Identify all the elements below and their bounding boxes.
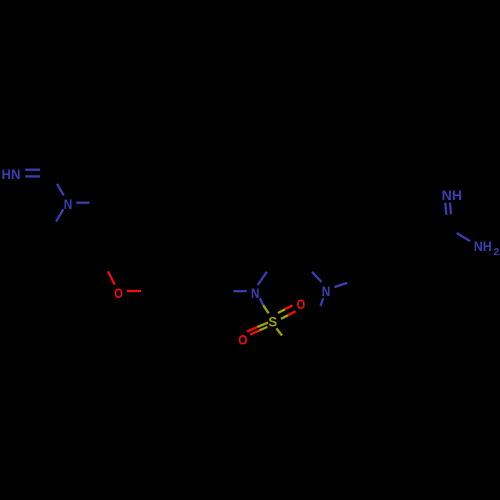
bond S=O lower-left line1 (O half) — [247, 327, 257, 332]
bond HN=C double (N half, upper line) — [25, 169, 40, 171]
bond S=O lower-left line2 (O half) — [250, 331, 259, 335]
bond C=NH amidine double line2 (N half) — [450, 203, 451, 215]
svg-text:N: N — [322, 283, 331, 299]
bond C-N1 piperidine (N half) — [57, 184, 64, 196]
svg-text:S: S — [268, 313, 277, 329]
bond O-phenyl (O half) — [127, 290, 141, 292]
bond S=O upper-right line2 (O half) — [288, 311, 296, 315]
bond CH2-O ether (O half) — [108, 271, 115, 284]
bond N-S (S half) — [263, 305, 269, 313]
svg-text:O: O — [238, 331, 247, 347]
svg-text:O: O — [114, 285, 123, 301]
bond N-CH2 sulfonamide (N half) — [258, 272, 267, 285]
bond S=O lower-left line2 (S half) — [259, 327, 267, 331]
bond N-C7a indoline (N half) — [334, 283, 347, 287]
svg-text:N: N — [251, 285, 260, 301]
bond C-NH2 amidine (N half) — [457, 233, 471, 241]
bond N-CH3 indoline (N half) — [321, 298, 324, 306]
svg-text:HN: HN — [2, 166, 21, 182]
bond N-S (N half) — [260, 298, 263, 305]
bond S=O upper-right line1 (S half) — [278, 309, 285, 313]
svg-text:O: O — [297, 296, 306, 312]
svg-text:NH: NH — [474, 238, 492, 254]
bond S=O lower-left line1 (S half) — [257, 323, 268, 327]
svg-text:2: 2 — [494, 247, 500, 258]
svg-text:NH: NH — [442, 187, 463, 203]
bond S=O upper-right line2 (S half) — [281, 315, 288, 319]
bond S-CH3 (S half) — [276, 328, 282, 335]
bond C=NH amidine double line1 (N half) — [445, 203, 446, 215]
bond N1-C6 piperidine (N half) — [56, 209, 63, 221]
bond C2-N indoline (N half) — [312, 272, 322, 282]
svg-text:N: N — [64, 196, 73, 212]
bond HN=C double (N half, lower line) — [25, 175, 40, 177]
bond phenyl-N sulfonamide (N half) — [234, 290, 247, 292]
bond S=O upper-right line1 (O half) — [285, 305, 293, 309]
bond N1-C2 piperidine (N half) — [76, 202, 89, 204]
